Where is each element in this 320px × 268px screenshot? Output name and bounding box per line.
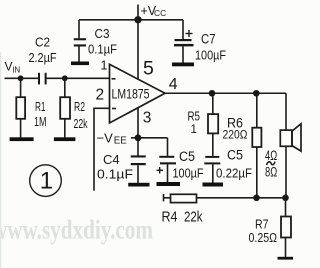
label R5 (188, 109, 201, 124)
pin 4 output wire (165, 92, 286, 94)
value label 22k (74, 117, 89, 131)
wire R7 top lead (285, 198, 287, 217)
label LM1875 (112, 87, 150, 102)
wire -VEE to C4/C5 (131, 137, 168, 139)
pin 1 minus mark (112, 78, 116, 80)
svg-text:C4: C4 (103, 152, 120, 167)
svg-text:C5: C5 (227, 148, 243, 163)
svg-text:0.25Ω: 0.25Ω (249, 230, 278, 245)
svg-text:C3: C3 (95, 26, 110, 41)
svg-text:IN: IN (12, 65, 20, 74)
capacitor C7 plates (174, 39, 194, 46)
node junction R6 bottom (253, 195, 260, 202)
node junction R6 on output (253, 90, 260, 97)
label C2 (35, 35, 50, 50)
resistor R4 tick (163, 194, 165, 201)
resistor R6 (252, 128, 261, 147)
wire bottom feedback rail (197, 197, 286, 199)
label 8ohm (265, 164, 277, 179)
svg-text:1: 1 (191, 124, 197, 136)
edge artifact left (0, 52, 1, 268)
resistor R7 (281, 217, 291, 238)
pin 2 wire (94, 107, 110, 109)
wire C4 top lead (137, 138, 139, 156)
wire R6 bottom lead (256, 147, 258, 198)
pin 3 wire (137, 108, 139, 138)
capacitor C2 plates (38, 73, 47, 85)
wire C7 bottom lead (182, 46, 184, 62)
svg-text:R1: R1 (35, 100, 46, 114)
svg-text:1M: 1M (34, 115, 47, 129)
value label 100uF (C7) (195, 48, 226, 63)
svg-text:22k: 22k (74, 117, 89, 131)
svg-text:2.2µF: 2.2µF (29, 51, 57, 65)
node circled figure number 1 (30, 165, 62, 197)
wire R4 left lead (164, 197, 171, 199)
pin 4 label (169, 76, 178, 93)
label C5 (0.22uF) (227, 148, 243, 163)
pin 2 minus mark (112, 108, 116, 110)
ground for R1 (10, 137, 34, 141)
node +Vcc junction (134, 16, 141, 23)
speaker LS1 body (280, 130, 292, 146)
wire R2 top lead (64, 78, 66, 97)
svg-text:R4: R4 (162, 210, 178, 226)
capacitor C5b plates (0.22uF) (204, 156, 220, 165)
ground for C3 (71, 62, 89, 66)
op-amp U1 LM1875 triangle (110, 64, 166, 123)
capacitor C5a plates (100uF) (159, 156, 176, 165)
svg-text:8Ω: 8Ω (265, 164, 277, 179)
svg-text:4Ω: 4Ω (265, 148, 277, 163)
wire R5 top lead (212, 93, 214, 114)
value label 0.25ohm (249, 230, 278, 245)
ground for C5a (157, 182, 181, 186)
resistor R2 (60, 97, 70, 119)
svg-text:CC: CC (154, 8, 166, 18)
svg-text:EE: EE (114, 135, 127, 146)
svg-text:0.1µF: 0.1µF (88, 43, 117, 57)
plus mark C5a (157, 167, 164, 173)
node input junction at R1 (18, 75, 24, 81)
wire C5a top lead (167, 138, 169, 156)
label C4 (103, 152, 120, 167)
svg-text:R2: R2 (74, 100, 85, 114)
svg-text:1: 1 (101, 58, 108, 72)
value label 1 (R5) (191, 124, 197, 136)
value label 0.1uF (C4) (97, 168, 133, 182)
svg-text:5: 5 (143, 57, 154, 79)
svg-text:22k: 22k (184, 210, 203, 226)
wire C4 bottom lead (137, 165, 139, 183)
pin 3 label (143, 110, 152, 127)
label R6 (227, 115, 243, 130)
wire output corner to speaker (285, 93, 287, 130)
wire input rail VIN to C2 left plate (5, 77, 40, 79)
label C3 (95, 26, 110, 41)
wire R1 top lead (20, 78, 22, 97)
ground for C7 (172, 63, 194, 67)
wire C5b bottom lead (212, 164, 214, 182)
value label 0.1uF (C3) (88, 43, 117, 57)
resistor R1 (16, 97, 25, 119)
wire C3 bottom lead (78, 47, 80, 62)
svg-text:www.sydxdiy.com: www.sydxdiy.com (0, 215, 153, 245)
svg-text:C5: C5 (179, 149, 195, 164)
svg-text:3: 3 (143, 110, 152, 127)
pin 5 wire (137, 20, 139, 79)
wire C2 right plate to pin 1 of U1 (46, 77, 110, 79)
label -VEE (97, 130, 128, 146)
wire C3 top lead (78, 20, 80, 39)
wire R6 top lead (256, 93, 258, 127)
label +Vcc (141, 4, 167, 18)
ground for R7 (278, 257, 294, 260)
svg-text:2: 2 (96, 87, 105, 104)
wire R2 bottom lead (64, 119, 66, 138)
ground for C4 (128, 183, 149, 187)
svg-text:0.22µF: 0.22µF (216, 165, 252, 180)
value label 0.22uF (216, 165, 252, 180)
node junction R5 on output (209, 90, 216, 97)
node junction R7 top (282, 195, 289, 202)
svg-text:100µF: 100µF (195, 48, 226, 63)
svg-text:4: 4 (169, 76, 178, 93)
resistor R4 (171, 194, 197, 202)
svg-text:C7: C7 (201, 32, 216, 47)
resistor R5 (208, 114, 218, 133)
svg-text:220Ω: 220Ω (223, 127, 248, 141)
wire speaker bottom lead (285, 146, 287, 198)
wire R1 bottom lead (20, 119, 22, 138)
capacitor C3 plates (74, 38, 86, 46)
label R2 (74, 100, 85, 114)
wire C5b top lead (212, 133, 214, 156)
svg-text:R5: R5 (188, 109, 201, 124)
label R4 (162, 210, 178, 226)
svg-text:0.1µF: 0.1µF (97, 168, 133, 182)
label R7 (255, 217, 269, 232)
label C5 (100uF) (179, 149, 195, 164)
speaker LS1 horn (292, 124, 301, 151)
svg-text:C2: C2 (35, 35, 50, 50)
wire top +Vcc rail (79, 19, 183, 21)
value label 220ohm (223, 127, 248, 141)
value label 22k (R4) (184, 210, 203, 226)
label R1 (35, 100, 46, 114)
wire R7 bottom lead (285, 238, 287, 258)
wire feedback vertical from pin 2 (93, 108, 95, 191)
svg-text:100µF: 100µF (173, 165, 204, 180)
svg-text:LM1875: LM1875 (112, 87, 150, 102)
value label 1M (34, 115, 47, 129)
pin 5 label (143, 57, 154, 79)
svg-text:−V: −V (97, 130, 114, 145)
value label 100uF (C5a) (173, 165, 204, 180)
label C7 (201, 32, 216, 47)
label VIN (5, 60, 21, 75)
ground for R2 (54, 137, 76, 141)
label 4ohm (265, 148, 277, 163)
capacitor C4 plates (131, 155, 146, 165)
wire C5a bottom lead (167, 164, 169, 182)
node -VEE junction (135, 134, 142, 141)
value label 2.2uF (29, 51, 57, 65)
pin 2 label (96, 87, 105, 104)
wire +Vcc stub (137, 5, 139, 20)
plus mark C7 (186, 30, 193, 37)
wire C7 top lead (182, 20, 184, 39)
pin 1 label (101, 58, 108, 72)
ground for C5b (203, 183, 224, 187)
node junction at R2 / pin1 (62, 75, 68, 81)
svg-text:1: 1 (40, 168, 53, 195)
label tilde (267, 162, 275, 165)
